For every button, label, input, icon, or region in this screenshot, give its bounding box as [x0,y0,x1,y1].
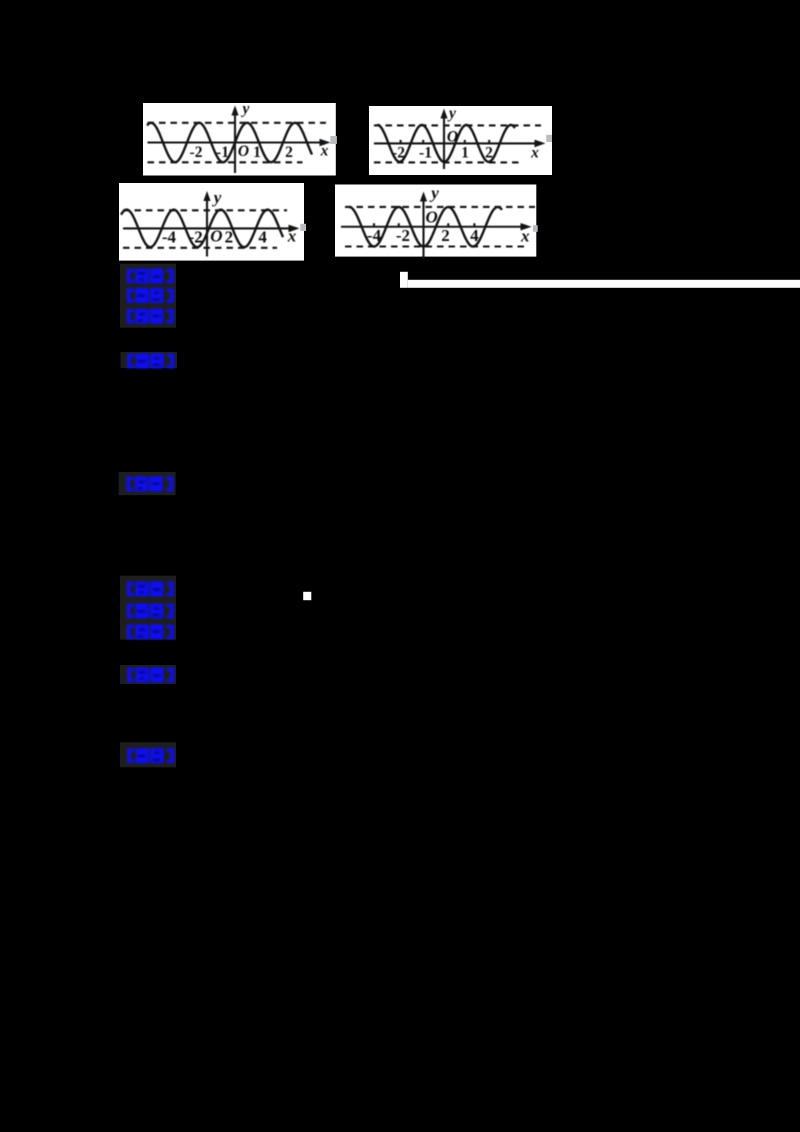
graph A x-axis arrowhead [320,139,331,147]
graph C bottom dashed line [123,247,277,249]
svg-text:-2: -2 [396,226,410,245]
svg-text:2: 2 [285,144,293,161]
graph C top dashed line [123,209,287,211]
Q2 jieda label [127,668,174,683]
white small square marker [303,592,311,600]
svg-text:O: O [426,208,438,227]
graph A labels [190,101,329,162]
Q1 label line 1 kaodian [127,269,174,284]
graph B tick -2 [400,140,402,144]
svg-text:2: 2 [485,145,493,162]
Q1 label line 3 fenxi [127,309,174,324]
graph B tick 1 [464,140,466,144]
graph D tick 2 [447,223,449,227]
graph B tick -1 [422,140,424,144]
graph C x-axis [123,227,296,229]
svg-text:1: 1 [253,144,261,161]
svg-text:4: 4 [258,227,267,246]
graph D labels [367,184,530,246]
svg-text:2: 2 [225,227,234,246]
svg-text:y: y [447,105,456,122]
svg-text:x: x [320,143,329,160]
graph A y-axis arrowhead [231,106,238,116]
graph B tick 2 [488,140,490,144]
graph A y-axis [234,110,236,173]
graph A x-axis [148,141,328,143]
Q2 label line 2 zhuanti [127,604,174,619]
Q1 label line 2 zhuanti [127,288,174,303]
svg-text:O: O [238,143,249,160]
svg-text:x: x [287,227,297,246]
svg-text:-1: -1 [419,145,432,162]
graph B top dashed line [374,124,541,126]
Q1 dianping background [119,472,176,495]
Q1 jieda background [121,352,178,368]
Q2 dianping background [120,742,176,767]
graph B y-axis arrowhead [440,109,447,119]
svg-text:x: x [520,227,530,246]
Q1 jieda label [127,354,174,369]
svg-text:4: 4 [470,226,479,245]
graph A top dashed line [148,122,327,124]
graph A bottom dashed line [148,161,303,163]
Q2 dianping label [127,748,174,763]
Q2 label line 3 fenxi [127,624,174,639]
graph C y-axis [206,196,208,257]
graph B y-axis [443,113,445,169]
graph D tick -4 [373,223,375,227]
svg-text:y: y [429,184,439,203]
Q2 label block background (3 lines) [120,576,176,640]
graph C y-axis arrowhead [203,191,210,201]
svg-text:1: 1 [461,145,469,162]
svg-text:-4: -4 [162,227,177,246]
graph B cosine curve [377,125,515,162]
svg-text:-4: -4 [367,226,382,245]
graph D cosine curve [349,207,502,247]
graph C resize handle [300,224,306,231]
graph A resize handle [330,136,337,144]
svg-text:-1: -1 [216,144,229,161]
svg-text:-2: -2 [392,145,405,162]
graph C x-axis arrowhead [289,225,300,233]
svg-text:x: x [530,145,539,162]
Q2 label line 1 kaodian [127,582,174,597]
graph A sine curve [147,123,312,162]
graph C sine curve [121,210,283,248]
Q2 jieda background [120,665,176,684]
graph D tick 4 [473,223,475,227]
graph B labels [392,105,539,162]
graph C labels [162,188,297,246]
white underline bar [408,280,800,288]
Q1 label block background (3 lines) [120,264,176,328]
graph D top dashed line [345,206,535,208]
graph A white box [143,103,336,176]
svg-text:O: O [210,227,222,246]
svg-text:O: O [447,129,458,146]
graph D y-axis arrowhead [420,192,427,202]
svg-text:-2: -2 [190,144,203,161]
svg-text:2: 2 [441,226,450,245]
svg-text:y: y [241,101,250,118]
graph D tick -2 [398,223,400,227]
graph D x-axis arrowhead [521,223,532,231]
graph B white box [369,106,552,175]
graph B bottom dashed line [374,161,522,163]
graph D y-axis [422,196,424,260]
graph D x-axis [341,226,528,228]
graph B x-axis [374,142,542,144]
graph D bottom dashed line [345,245,525,247]
white underline bar left cap [400,272,408,288]
Q1 dianping label [126,477,173,492]
graph D white box [335,185,536,257]
graph B resize handle [546,135,552,142]
svg-text:y: y [212,188,222,207]
graph B x-axis arrowhead [535,140,546,148]
graph D resize handle [533,225,538,232]
graph C white box [119,183,304,261]
svg-text:-2: -2 [189,227,203,246]
